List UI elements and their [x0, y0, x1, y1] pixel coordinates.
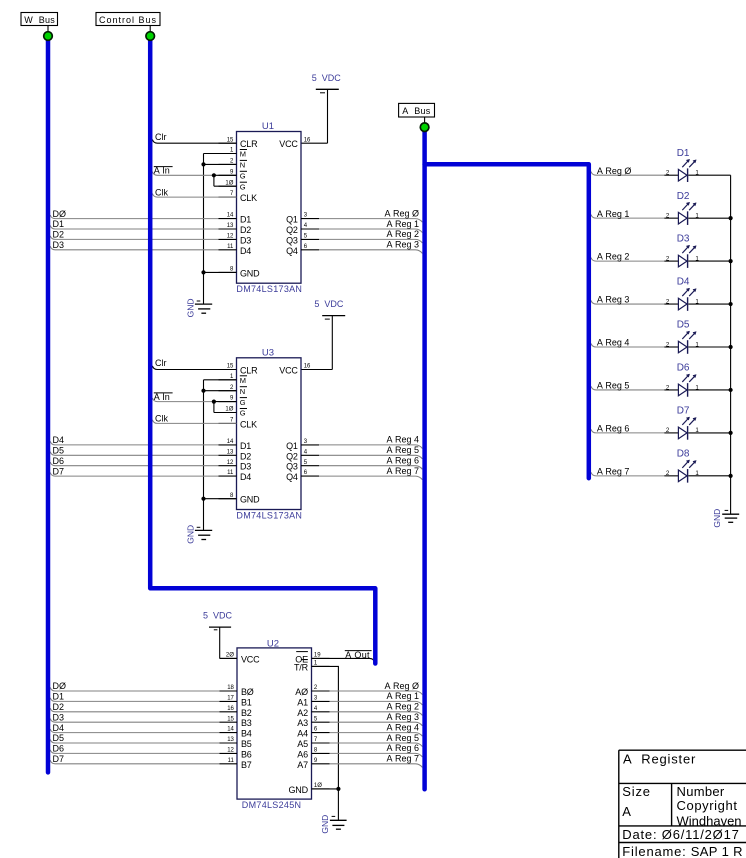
svg-text:9: 9 [230, 396, 234, 402]
wire A Reg 7 from A Bus branch to LED D8 [591, 472, 664, 476]
svg-text:9: 9 [314, 758, 318, 764]
svg-text:G: G [240, 172, 246, 181]
svg-text:A Reg 7: A Reg 7 [386, 754, 419, 764]
svg-text:D4: D4 [240, 246, 251, 256]
wire A Reg 2 from A Bus branch to LED D3 [591, 258, 664, 262]
svg-text:A In: A In [154, 392, 170, 402]
svg-text:B6: B6 [241, 749, 252, 759]
svg-text:Date: Ø6/11/2Ø17: Date: Ø6/11/2Ø17 [622, 827, 739, 842]
svg-text:CLK: CLK [240, 193, 257, 203]
svg-text:B1: B1 [241, 697, 252, 707]
node Control Bus junction (green) [146, 32, 155, 41]
svg-text:Clk: Clk [155, 187, 168, 197]
svg-text:B2: B2 [241, 708, 252, 718]
wire A In to U1 pin 9/10 [152, 172, 214, 176]
svg-text:A2: A2 [297, 708, 308, 718]
wire A Reg 3 from A Bus branch to LED D4 [591, 300, 664, 304]
wire LED D1 cathode to common [688, 174, 730, 176]
svg-text:A Reg 4: A Reg 4 [386, 435, 419, 445]
wires U3 Q outputs to A Bus (A Reg 4-7) [319, 444, 416, 446]
svg-text:15: 15 [227, 716, 234, 722]
svg-text:DM74LS245N: DM74LS245N [242, 800, 302, 810]
svg-text:DM74LS173AN: DM74LS173AN [236, 510, 302, 520]
svg-text:6: 6 [314, 727, 318, 733]
svg-text:D1: D1 [53, 692, 65, 702]
node A Bus junction (green) [420, 123, 429, 132]
svg-text:2: 2 [666, 384, 670, 391]
ground symbol for LED column [722, 513, 739, 515]
wire M/N tie vertical to GND (U3) [204, 379, 237, 381]
title block frame [619, 749, 746, 751]
IC U1 DM74LS173AN body [237, 132, 302, 284]
svg-text:A In: A In [154, 166, 170, 176]
svg-text:Q2: Q2 [286, 225, 298, 235]
node LED common junction D5 [729, 345, 733, 349]
svg-text:16: 16 [304, 364, 311, 370]
svg-text:A Out: A Out [345, 650, 370, 660]
LED D7 [678, 427, 687, 439]
svg-text:Q3: Q3 [286, 462, 298, 472]
svg-text:18: 18 [227, 685, 234, 691]
wire A Out from U2 OE to Control Bus [312, 657, 370, 659]
svg-text:8: 8 [230, 267, 234, 273]
LED D8 [678, 470, 687, 482]
wires U1 Q outputs to A Bus (A Reg ;-3) [319, 218, 416, 220]
svg-text:A Register: A Register [623, 752, 696, 767]
svg-text:N: N [240, 387, 245, 396]
svg-text:B5: B5 [241, 739, 252, 749]
wire VCC to U1 pin 16 [301, 142, 328, 144]
svg-text:1Ø: 1Ø [314, 783, 322, 789]
svg-text:D2: D2 [53, 702, 65, 712]
svg-text:D1: D1 [677, 148, 690, 159]
svg-text:1Ø: 1Ø [225, 180, 233, 186]
ground symbol below U1 [203, 272, 205, 304]
svg-text:4: 4 [314, 706, 318, 712]
svg-text:3: 3 [304, 439, 308, 445]
svg-text:D2: D2 [240, 451, 251, 461]
svg-text:Clr: Clr [155, 358, 167, 368]
LED D6 [678, 384, 687, 396]
svg-text:D1: D1 [53, 219, 65, 229]
svg-text:A Reg 4: A Reg 4 [386, 722, 419, 732]
svg-text:U3: U3 [262, 347, 274, 358]
svg-text:GND: GND [240, 268, 260, 278]
U3 left pin stubs [219, 369, 237, 371]
svg-text:VCC: VCC [279, 139, 298, 149]
node LED common junction D8 [729, 474, 733, 478]
svg-text:GND: GND [240, 495, 260, 505]
svg-text:G: G [240, 182, 246, 191]
svg-text:A7: A7 [297, 760, 308, 770]
svg-text:Q3: Q3 [286, 235, 298, 245]
svg-text:8: 8 [230, 493, 234, 499]
svg-text:A Reg 5: A Reg 5 [386, 445, 419, 455]
svg-text:DM74LS173AN: DM74LS173AN [236, 284, 302, 294]
svg-text:13: 13 [227, 737, 234, 743]
svg-text:U1: U1 [262, 121, 274, 132]
svg-text:VCC: VCC [241, 654, 260, 664]
svg-text:14: 14 [227, 213, 234, 219]
svg-text:5 VDC: 5 VDC [312, 73, 342, 83]
svg-text:3: 3 [314, 696, 318, 702]
svg-text:14: 14 [227, 439, 234, 445]
svg-text:A Reg 7: A Reg 7 [597, 466, 630, 476]
svg-text:5 VDC: 5 VDC [314, 299, 344, 309]
svg-text:D3: D3 [240, 235, 251, 245]
svg-text:A Reg 3: A Reg 3 [386, 240, 419, 250]
5 VDC power symbol for U1 [316, 88, 339, 90]
svg-text:M: M [240, 376, 246, 385]
svg-text:A: A [622, 804, 631, 819]
wire M/N tie vertical to GND (U1) [204, 153, 237, 155]
svg-text:4: 4 [304, 449, 308, 455]
svg-text:D6: D6 [53, 744, 65, 754]
wire LED D2 cathode to common [688, 217, 730, 219]
svg-text:B7: B7 [241, 760, 252, 770]
wire LED D5 cathode to common [688, 346, 730, 348]
wires D0-D7 from W Bus to U2 B0-B7 [50, 687, 219, 691]
svg-text:Filename:: Filename: [622, 844, 686, 858]
wire A Reg 6 from A Bus branch to LED D7 [591, 429, 664, 433]
svg-text:15: 15 [227, 137, 234, 143]
svg-text:D7: D7 [677, 406, 690, 417]
svg-text:5 VDC: 5 VDC [203, 611, 233, 621]
wire Clk to U3 pin 7 [152, 420, 236, 424]
svg-text:Q2: Q2 [286, 451, 298, 461]
wires D4-D7 from W Bus to U3 D1-D4 [50, 441, 218, 445]
svg-text:12: 12 [227, 460, 234, 466]
svg-text:2: 2 [314, 685, 318, 691]
svg-text:A Reg 5: A Reg 5 [386, 733, 419, 743]
ground symbol below U3 [203, 499, 205, 531]
wire A Reg 5 from A Bus branch to LED D6 [591, 386, 664, 390]
svg-text:M: M [240, 150, 246, 159]
LED D1 [678, 169, 687, 181]
wire A In to U3 pin 9/10 [152, 398, 214, 402]
svg-text:T/R: T/R [294, 662, 309, 672]
IC U2 DM74LS245N body [237, 648, 312, 799]
svg-text:16: 16 [227, 706, 234, 712]
svg-text:Copyright: Copyright [677, 798, 738, 813]
svg-text:A Reg 6: A Reg 6 [386, 743, 419, 753]
wire VCC to U2 pin 20 [220, 657, 237, 659]
svg-text:D3: D3 [240, 462, 251, 472]
wire W Bus (vertical blue bus) [46, 36, 51, 772]
svg-text:11: 11 [228, 758, 235, 764]
svg-text:17: 17 [227, 696, 234, 702]
svg-text:2: 2 [666, 470, 670, 477]
node W Bus label [21, 13, 58, 26]
svg-text:GND: GND [186, 525, 196, 544]
svg-text:G: G [240, 398, 246, 407]
svg-text:2: 2 [666, 298, 670, 305]
LED D3 [678, 255, 687, 267]
svg-text:1: 1 [230, 374, 234, 380]
svg-text:CLK: CLK [240, 419, 257, 429]
wire Clk to U1 pin 7 [152, 194, 236, 198]
svg-text:A Reg 6: A Reg 6 [597, 424, 630, 434]
svg-text:GND: GND [288, 785, 308, 795]
svg-text:2: 2 [230, 385, 234, 391]
svg-text:CLR: CLR [240, 139, 258, 149]
svg-text:2: 2 [666, 255, 670, 262]
svg-text:W Bus: W Bus [24, 15, 55, 25]
svg-text:D3: D3 [677, 234, 690, 245]
svg-text:AØ: AØ [295, 687, 308, 697]
svg-text:4: 4 [304, 223, 308, 229]
node LED common junction D4 [729, 302, 733, 306]
svg-text:D8: D8 [677, 448, 690, 459]
svg-text:A4: A4 [297, 729, 308, 739]
svg-text:11: 11 [227, 244, 234, 250]
svg-text:A Reg Ø: A Reg Ø [384, 681, 419, 691]
svg-text:D6: D6 [677, 363, 690, 374]
svg-text:12: 12 [227, 234, 234, 240]
LED D4 [678, 298, 687, 310]
wire A Reg 1 from A Bus branch to LED D2 [591, 215, 664, 219]
wire A Reg 0 from A Bus branch to LED D1 [591, 172, 664, 176]
svg-text:12: 12 [227, 748, 234, 754]
svg-text:D2: D2 [240, 225, 251, 235]
svg-text:D6: D6 [53, 456, 65, 466]
svg-text:D2: D2 [677, 191, 690, 202]
svg-text:Q1: Q1 [286, 215, 298, 225]
svg-text:A Reg 1: A Reg 1 [386, 691, 419, 701]
svg-text:13: 13 [227, 449, 234, 455]
node W Bus junction (green) [44, 32, 53, 41]
svg-text:Control Bus: Control Bus [99, 15, 157, 25]
svg-text:A Reg 3: A Reg 3 [597, 295, 630, 305]
svg-text:19: 19 [314, 653, 321, 659]
svg-text:6: 6 [304, 244, 308, 250]
svg-text:A Reg 7: A Reg 7 [386, 466, 419, 476]
svg-text:7: 7 [230, 418, 234, 424]
svg-text:3: 3 [304, 213, 308, 219]
wire LED D6 cathode to common [688, 389, 730, 391]
svg-text:A Reg 1: A Reg 1 [597, 209, 630, 219]
node A Bus label [399, 103, 435, 117]
svg-text:15: 15 [227, 364, 234, 370]
svg-text:D1: D1 [240, 441, 251, 451]
svg-text:7: 7 [314, 737, 318, 743]
svg-text:Q4: Q4 [286, 472, 298, 482]
wire A Bus branch to LED column [425, 164, 589, 478]
svg-text:VCC: VCC [279, 366, 298, 376]
svg-text:D2: D2 [53, 230, 65, 240]
svg-text:D3: D3 [53, 240, 65, 250]
svg-text:2Ø: 2Ø [226, 653, 234, 659]
svg-text:A Reg Ø: A Reg Ø [384, 208, 419, 218]
svg-text:Q1: Q1 [286, 441, 298, 451]
svg-text:A Bus: A Bus [402, 106, 431, 116]
svg-text:5: 5 [304, 234, 308, 240]
svg-text:A3: A3 [297, 718, 308, 728]
svg-text:Clk: Clk [155, 414, 168, 424]
U2 right pin stubs [312, 657, 330, 659]
wire LED common vertical [730, 175, 732, 514]
svg-text:1Ø: 1Ø [225, 407, 233, 413]
svg-text:16: 16 [304, 137, 311, 143]
svg-text:5: 5 [314, 716, 318, 722]
svg-text:D4: D4 [53, 723, 65, 733]
ground symbol below U2 [337, 789, 339, 820]
wires U2 A0-A7 to A Bus (A Reg 0-7) [330, 690, 416, 692]
IC U3 DM74LS173AN body [237, 358, 302, 510]
5 VDC power symbol for U2 [209, 626, 231, 628]
svg-text:2: 2 [666, 427, 670, 434]
svg-text:A Reg 4: A Reg 4 [597, 338, 630, 348]
svg-text:Size: Size [622, 784, 651, 799]
svg-text:8: 8 [314, 748, 318, 754]
svg-text:B3: B3 [241, 718, 252, 728]
svg-text:5: 5 [304, 460, 308, 466]
svg-text:G: G [240, 409, 246, 418]
svg-text:9: 9 [230, 169, 234, 175]
wire VCC to U3 pin 16 [301, 369, 332, 371]
svg-text:A1: A1 [297, 697, 308, 707]
svg-text:D7: D7 [53, 466, 65, 476]
svg-text:D4: D4 [677, 277, 690, 288]
svg-text:D7: D7 [53, 754, 65, 764]
svg-text:7: 7 [230, 191, 234, 197]
svg-text:BØ: BØ [241, 687, 254, 697]
svg-text:D5: D5 [53, 733, 65, 743]
svg-text:A Reg 5: A Reg 5 [597, 381, 630, 391]
LED D5 [678, 341, 687, 353]
svg-text:13: 13 [227, 223, 234, 229]
svg-text:N: N [240, 161, 245, 170]
svg-text:DØ: DØ [53, 209, 67, 219]
svg-text:A Reg 3: A Reg 3 [386, 712, 419, 722]
svg-text:B4: B4 [241, 729, 252, 739]
wire LED D4 cathode to common [688, 303, 730, 305]
svg-text:CLR: CLR [240, 366, 258, 376]
wire A Reg 4 from A Bus branch to LED D5 [591, 343, 664, 347]
wire LED D8 cathode to common [688, 475, 730, 477]
svg-text:GND: GND [712, 509, 722, 528]
wire LED D3 cathode to common [688, 260, 730, 262]
svg-text:A Reg Ø: A Reg Ø [597, 166, 632, 176]
svg-text:2: 2 [230, 159, 234, 165]
wire Clr to U3 pin 15 [152, 366, 236, 370]
svg-text:D5: D5 [677, 320, 690, 331]
svg-text:Number: Number [677, 784, 725, 799]
svg-text:A Reg 2: A Reg 2 [597, 252, 630, 262]
svg-text:2: 2 [666, 170, 670, 177]
svg-text:A Reg 6: A Reg 6 [386, 456, 419, 466]
svg-text:DØ: DØ [53, 681, 67, 691]
svg-text:A Reg 2: A Reg 2 [386, 229, 419, 239]
wire T/R tie to GND (U2) [312, 666, 339, 789]
U3 right pin stubs Q1-Q4 [301, 444, 319, 446]
svg-text:D1: D1 [240, 215, 251, 225]
node LED common junction D3 [729, 259, 733, 263]
svg-text:1: 1 [230, 148, 234, 154]
svg-text:Q4: Q4 [286, 246, 298, 256]
node LED common junction D7 [729, 431, 733, 435]
svg-text:A5: A5 [297, 739, 308, 749]
5 VDC power symbol for U3 [322, 315, 345, 317]
U2 left pin stubs [220, 657, 238, 659]
svg-text:1: 1 [314, 661, 318, 667]
svg-text:GND: GND [186, 299, 196, 318]
svg-text:Clr: Clr [155, 132, 167, 142]
svg-text:A Reg 1: A Reg 1 [386, 219, 419, 229]
svg-text:D3: D3 [53, 712, 65, 722]
wire LED D7 cathode to common [688, 432, 730, 434]
node LED common junction D6 [729, 388, 733, 392]
svg-text:D5: D5 [53, 446, 65, 456]
svg-text:14: 14 [227, 727, 234, 733]
svg-text:SAP 1 R: SAP 1 R [691, 844, 743, 858]
wire A Bus (vertical blue bus) [422, 127, 427, 789]
U1 left pin stubs [219, 142, 237, 144]
node Control Bus label [96, 13, 160, 26]
node LED common junction D2 [729, 216, 733, 220]
svg-text:2: 2 [666, 212, 670, 219]
wire Control Bus (vertical blue bus with bend to U2 OE) [150, 36, 375, 664]
svg-text:A Reg 2: A Reg 2 [386, 702, 419, 712]
svg-text:2: 2 [666, 341, 670, 348]
svg-text:GND: GND [320, 815, 330, 834]
svg-text:D4: D4 [53, 435, 65, 445]
svg-text:6: 6 [304, 470, 308, 476]
svg-text:U2: U2 [267, 639, 279, 650]
svg-text:D4: D4 [240, 472, 251, 482]
wire U2 GND pin [312, 788, 339, 790]
wire Clr to U1 pin 15 [152, 140, 236, 144]
U1 right pin stubs Q1-Q4 [301, 218, 319, 220]
LED D2 [678, 212, 687, 224]
svg-text:11: 11 [227, 470, 234, 476]
svg-text:A6: A6 [297, 749, 308, 759]
wires D&#216;-D3 from W Bus to U1 D1-D4 [50, 215, 218, 219]
